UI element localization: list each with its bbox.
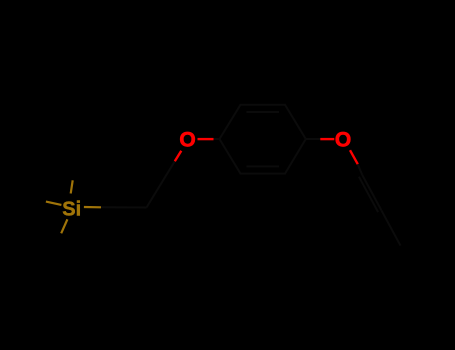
bond Si-CH3 up: [71, 180, 73, 193]
bond O2-C1' red part: [350, 150, 358, 164]
bond O1-ring dark part: [214, 138, 220, 140]
bond O2-C1' dark part: [358, 164, 362, 175]
bond Si-CH3 down: [61, 219, 67, 233]
svg-text:Si: Si: [62, 198, 81, 220]
svg-text:O: O: [335, 129, 351, 152]
bond Si-CH3 left: [46, 202, 62, 205]
bond Si-C1 / C1-C2 dark segment (horizontal chain): [101, 206, 147, 208]
benzene inner double bond top: [247, 111, 280, 113]
bond O1-ring red part: [198, 138, 214, 140]
svg-text:O: O: [179, 128, 195, 151]
bond ring-O2 red part: [320, 138, 334, 140]
bond C1'=C2' twin line: [359, 177, 378, 212]
bond C3-O1 red part: [175, 151, 182, 161]
bond ring-O2 dark part: [306, 138, 321, 140]
bond C2-C3-O1 dark diagonal: [147, 161, 175, 207]
bond Si-C1 gold half: [84, 206, 101, 209]
bond C2'-C3' methyl: [381, 210, 400, 245]
benzene ring: [220, 105, 306, 174]
bond C1'=C2' main line: [362, 175, 381, 210]
benzene inner double bond bottom: [247, 165, 280, 167]
